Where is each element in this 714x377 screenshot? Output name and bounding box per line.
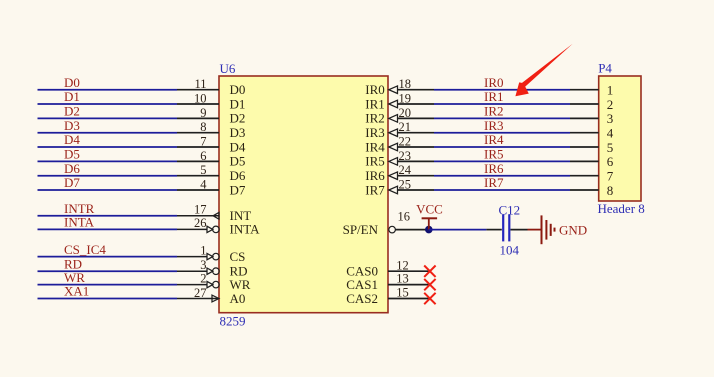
svg-text:8259: 8259 (220, 313, 246, 328)
svg-text:CS_IC4: CS_IC4 (64, 242, 106, 257)
svg-text:23: 23 (399, 149, 412, 163)
svg-text:INTA: INTA (230, 222, 261, 237)
svg-text:IR5: IR5 (484, 147, 504, 162)
svg-text:D4: D4 (230, 139, 246, 154)
svg-text:D2: D2 (230, 111, 246, 126)
svg-text:D5: D5 (64, 147, 80, 162)
svg-text:IR4: IR4 (484, 132, 504, 147)
svg-text:C12: C12 (499, 203, 521, 218)
svg-text:A0: A0 (230, 291, 246, 306)
svg-text:INTA: INTA (64, 215, 95, 230)
svg-text:IR2: IR2 (365, 111, 385, 126)
svg-text:6: 6 (200, 149, 206, 163)
svg-text:6: 6 (607, 154, 614, 169)
svg-text:5: 5 (200, 163, 206, 177)
svg-text:D0: D0 (64, 75, 80, 90)
svg-text:IR3: IR3 (365, 125, 385, 140)
svg-text:3: 3 (200, 258, 206, 272)
svg-text:GND: GND (559, 223, 587, 238)
svg-text:17: 17 (194, 202, 207, 216)
svg-text:Header 8: Header 8 (598, 201, 645, 216)
svg-text:D1: D1 (64, 89, 80, 104)
svg-text:IR3: IR3 (484, 118, 504, 133)
svg-text:IR4: IR4 (365, 139, 385, 154)
svg-text:D5: D5 (230, 154, 246, 169)
svg-text:15: 15 (396, 286, 409, 300)
svg-text:WR: WR (64, 270, 85, 285)
svg-text:IR1: IR1 (484, 89, 504, 104)
svg-text:27: 27 (194, 286, 207, 300)
svg-text:7: 7 (200, 135, 206, 149)
svg-text:19: 19 (399, 92, 412, 106)
svg-text:22: 22 (399, 135, 412, 149)
svg-text:IR1: IR1 (365, 96, 385, 111)
svg-text:7: 7 (607, 169, 614, 184)
svg-text:10: 10 (194, 92, 207, 106)
svg-text:D7: D7 (230, 182, 246, 197)
svg-text:12: 12 (396, 258, 409, 272)
svg-text:XA1: XA1 (64, 284, 89, 299)
svg-text:D6: D6 (230, 168, 246, 183)
svg-text:18: 18 (399, 77, 412, 91)
svg-text:WR: WR (230, 277, 251, 292)
svg-text:2: 2 (607, 97, 614, 112)
svg-text:21: 21 (399, 120, 412, 134)
svg-text:3: 3 (607, 111, 614, 126)
svg-text:2: 2 (200, 272, 206, 286)
svg-text:SP/EN: SP/EN (343, 222, 379, 237)
svg-text:11: 11 (194, 77, 206, 91)
svg-text:D2: D2 (64, 104, 80, 119)
svg-text:1: 1 (200, 244, 206, 258)
svg-text:8: 8 (200, 120, 206, 134)
svg-text:VCC: VCC (416, 202, 443, 217)
svg-text:16: 16 (398, 210, 411, 224)
svg-text:26: 26 (194, 216, 207, 230)
svg-text:IR6: IR6 (365, 168, 385, 183)
svg-text:CS: CS (230, 249, 246, 264)
svg-text:20: 20 (399, 106, 412, 120)
svg-text:104: 104 (500, 242, 520, 257)
svg-text:U6: U6 (220, 61, 236, 76)
svg-text:CAS2: CAS2 (346, 291, 378, 306)
svg-text:8: 8 (607, 183, 614, 198)
svg-text:IR0: IR0 (484, 75, 504, 90)
svg-text:IR7: IR7 (484, 175, 504, 190)
svg-text:IR6: IR6 (484, 161, 504, 176)
svg-text:13: 13 (396, 272, 409, 286)
svg-text:D3: D3 (230, 125, 246, 140)
svg-text:D0: D0 (230, 82, 246, 97)
svg-text:24: 24 (399, 163, 412, 177)
svg-text:D4: D4 (64, 132, 80, 147)
svg-text:D1: D1 (230, 96, 246, 111)
svg-text:1: 1 (607, 83, 614, 98)
svg-text:CAS1: CAS1 (346, 277, 378, 292)
svg-text:D7: D7 (64, 175, 80, 190)
svg-text:4: 4 (200, 178, 207, 192)
svg-text:IR5: IR5 (365, 154, 385, 169)
svg-text:4: 4 (607, 126, 614, 141)
svg-text:IR0: IR0 (365, 82, 385, 97)
svg-text:IR7: IR7 (365, 182, 385, 197)
svg-text:IR2: IR2 (484, 104, 504, 119)
svg-text:P4: P4 (598, 61, 612, 76)
svg-text:D3: D3 (64, 118, 80, 133)
svg-text:9: 9 (200, 106, 206, 120)
svg-text:5: 5 (607, 140, 614, 155)
svg-text:25: 25 (399, 178, 412, 192)
svg-text:D6: D6 (64, 161, 80, 176)
